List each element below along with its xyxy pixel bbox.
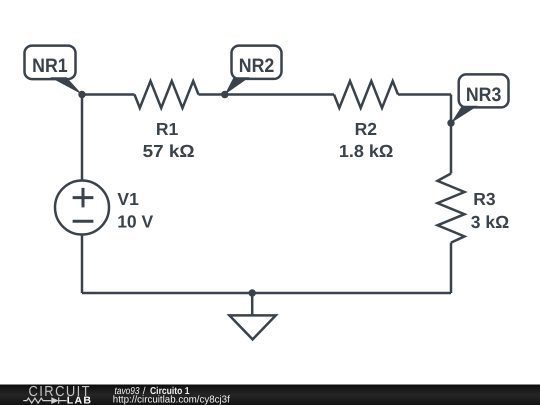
svg-text:10 V: 10 V (117, 212, 153, 232)
svg-text:R3: R3 (473, 189, 496, 209)
svg-text:LAB: LAB (67, 396, 93, 405)
svg-text:http://circuitlab.com/cy8cj3f: http://circuitlab.com/cy8cj3f (113, 394, 230, 405)
svg-text:R2: R2 (355, 119, 378, 139)
svg-text:NR1: NR1 (32, 55, 68, 77)
svg-text:57 kΩ: 57 kΩ (143, 141, 195, 161)
svg-text:1.8 kΩ: 1.8 kΩ (339, 141, 394, 161)
svg-text:NR2: NR2 (239, 55, 275, 77)
svg-text:R1: R1 (156, 119, 179, 139)
svg-text:V1: V1 (117, 189, 139, 209)
svg-text:3 kΩ: 3 kΩ (471, 212, 509, 232)
svg-text:NR3: NR3 (466, 84, 502, 106)
